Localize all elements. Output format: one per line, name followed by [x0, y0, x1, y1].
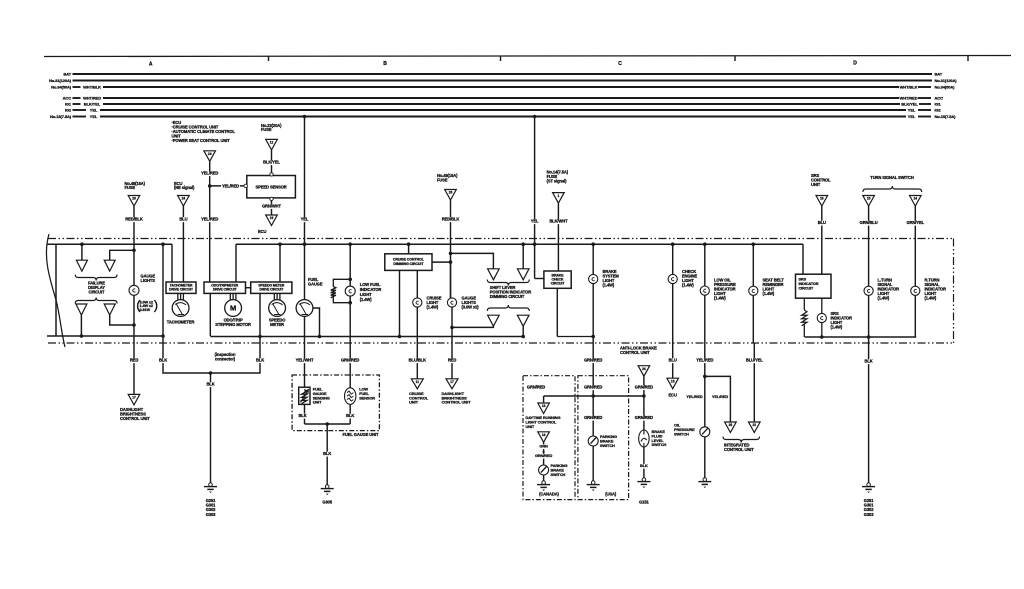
svg-text:FUSE: FUSE [125, 185, 136, 190]
node fuel gauge rail [318, 335, 322, 339]
wire low fuel sensor BLK [349, 404, 351, 424]
connector triangle 14 turn signal R [910, 196, 922, 207]
wire sending unit BLK [304, 404, 306, 424]
failure display triangle 4 [104, 304, 115, 315]
wire cruise dimming to RED/BLK illum wire [432, 261, 451, 263]
svg-text:GRN/RED: GRN/RED [584, 385, 602, 390]
tachometer pins [177, 293, 179, 299]
wire BLU SRS control unit to SRS indicator circuit [821, 206, 823, 274]
svg-text:SWITCH: SWITCH [600, 443, 615, 448]
svg-text:ACC: ACC [63, 96, 72, 101]
wire GRN/RED from ABS triangle [643, 376, 645, 430]
parking brake switch canada [539, 465, 549, 475]
svg-text:METER: METER [270, 322, 284, 327]
connector triangle 26 No.49 fuse middle [445, 190, 457, 201]
svg-text:GRN/RED: GRN/RED [527, 385, 545, 390]
label YEL/WHT [295, 358, 314, 363]
wire gauge lights bulb down to RED exit [133, 295, 135, 343]
label YEL/RED right [711, 395, 729, 400]
wire failure triangle 4 to RED/BLK wire [110, 315, 134, 325]
svg-text:D: D [853, 61, 857, 67]
svg-text:(1.4W): (1.4W) [763, 291, 775, 296]
label GRN [539, 444, 547, 449]
svg-text:24: 24 [642, 367, 646, 371]
brake check circuit box [544, 271, 571, 288]
label GRN/RED canada switch [535, 454, 553, 459]
wire YEL/RED branch to speed sensor [210, 185, 244, 187]
label RED/BLK [125, 217, 144, 222]
svg-text:WHT/BLK: WHT/BLK [83, 85, 101, 90]
wire bus to rail bypass left of tachometer [162, 244, 164, 336]
connector triangle 18 SRS control unit [816, 196, 828, 207]
label GRN/RED main [584, 358, 603, 363]
svg-text:26: 26 [729, 423, 733, 427]
svg-text:GRN/RED: GRN/RED [635, 385, 653, 390]
svg-text:YEL: YEL [90, 114, 98, 119]
gauge assembly torn left edge [46, 234, 65, 347]
svg-text:BLU/BLK: BLU/BLK [409, 358, 426, 363]
svg-text:BLK/YEL: BLK/YEL [84, 102, 101, 107]
speedo meter pins [273, 293, 275, 299]
svg-text:GRN/YEL: GRN/YEL [907, 220, 925, 225]
connector triangle 15 ECU [667, 378, 679, 389]
node low fuel loop top [348, 278, 352, 282]
svg-text:SPEED SENSOR: SPEED SENSOR [256, 185, 287, 190]
internal bus left segment [47, 243, 172, 245]
label BLK right ground [864, 359, 873, 364]
label BLK/YEL [262, 160, 281, 165]
label GRN/RED fuel [341, 358, 360, 363]
label RED right [448, 358, 457, 363]
svg-text:YEL/RED: YEL/RED [222, 183, 239, 188]
ground rail right segment [805, 336, 917, 338]
svg-text:·AUTOMATIC CLIMATE CONTROL: ·AUTOMATIC CLIMATE CONTROL [172, 129, 236, 134]
connector triangle 17 dashlight left [128, 394, 140, 405]
svg-text:No.15(7.5A): No.15(7.5A) [50, 114, 72, 119]
svg-text:INDICATOR: INDICATOR [799, 282, 819, 286]
ground canada [542, 481, 546, 485]
brake system light bulb [589, 274, 598, 283]
label BLU [179, 217, 188, 222]
svg-text:(1.4W): (1.4W) [427, 304, 439, 309]
wire R turn bulb to rail [914, 295, 916, 337]
wire seat belt light to BLU/YEL exit [752, 295, 754, 343]
connector triangle 26 ICU left [725, 422, 737, 433]
wire GRN/RED brake system to parking brake switches [592, 343, 594, 436]
node bypass wire at rail [161, 334, 165, 338]
label BLK left [159, 358, 168, 363]
svg-text:YEL/RED: YEL/RED [201, 171, 218, 176]
svg-text:DRIVE CIRCUIT: DRIVE CIRCUIT [259, 288, 284, 292]
svg-text:(1.4W): (1.4W) [878, 296, 890, 301]
node shift lever dimmer feed [449, 252, 453, 256]
node shift lever feed on bus [521, 242, 525, 246]
svg-text:CONTROL UNIT: CONTROL UNIT [442, 400, 472, 405]
node failure display feed [80, 242, 84, 246]
wire fuel gauge right side to rail [313, 308, 320, 337]
wire low fuel indicator main [349, 244, 351, 343]
svg-text:IG1: IG1 [935, 102, 942, 107]
svg-text:UNIT: UNIT [313, 400, 322, 405]
section ruler line [44, 56, 1011, 57]
ground rail brake check link [557, 336, 593, 338]
label GRN/RED canada [527, 385, 546, 390]
svg-text:CONTROL UNIT: CONTROL UNIT [120, 416, 150, 421]
usa box [578, 376, 629, 500]
bus No.31(120A) line [73, 80, 933, 82]
junction node speed sensor branch [208, 184, 212, 188]
label YEL/RED left [686, 395, 704, 400]
connector triangle 26 No.49 fuse left [128, 196, 140, 207]
wire RED/BLK fuse to gauge lights [133, 206, 135, 286]
svg-text:CIRCUIT: CIRCUIT [551, 282, 565, 286]
svg-text:(NE signal): (NE signal) [174, 185, 195, 190]
svg-text:YEL/RED: YEL/RED [712, 394, 728, 399]
wire gauge lights right to RED exit [451, 307, 453, 343]
shift lever triangle 4 [517, 315, 529, 326]
node fuel gauge feed on bus [303, 242, 307, 246]
internal bus left end drop wire [55, 244, 57, 336]
wire failure triangle 3 to rail [80, 315, 82, 336]
shift lever lower brace [487, 305, 529, 311]
label YEL/RED upper [200, 171, 219, 176]
svg-text:UNIT: UNIT [526, 424, 535, 429]
svg-text:ECU: ECU [258, 229, 266, 234]
tachometer gauge [172, 300, 189, 317]
svg-text:UNIT: UNIT [811, 182, 821, 187]
svg-text:G303: G303 [864, 512, 874, 517]
node shift lever rail [521, 335, 525, 339]
wire BLK left inspection connector [163, 336, 260, 373]
node YEL on bus [533, 242, 537, 246]
svg-text:DIMMING CIRCUIT: DIMMING CIRCUIT [393, 262, 424, 266]
svg-text:(1.4W): (1.4W) [925, 296, 937, 301]
label YEL/RED on branch [221, 184, 240, 189]
tachometer drive circuit box [166, 282, 196, 293]
low fuel resistor parallel loop [333, 279, 350, 286]
fuel gauge [296, 300, 313, 317]
wire check engine light to BLU exit [672, 284, 674, 343]
wire SRS bulb to rail [821, 323, 823, 337]
shift lever upper brace [487, 280, 529, 286]
svg-text:SWITCH: SWITCH [652, 442, 667, 447]
svg-text:No.15(7.5A): No.15(7.5A) [935, 114, 957, 119]
svg-text:CIRCUIT: CIRCUIT [89, 290, 106, 295]
svg-text:DRIVE CIRCUIT: DRIVE CIRCUIT [213, 288, 238, 292]
wire bus corner to odo box [235, 244, 237, 282]
node YEL tap on No.15 bus right [533, 115, 537, 119]
svg-text:(1.4W): (1.4W) [831, 324, 843, 329]
svg-text:FUSE: FUSE [437, 177, 448, 182]
label BLK right [256, 358, 265, 363]
svg-text:0.91W: 0.91W [140, 308, 151, 312]
wire SRS resistor to rail [803, 324, 805, 337]
wire brake system light to GRN/RED exit [592, 284, 594, 343]
svg-text:15: 15 [671, 379, 675, 383]
svg-text:M: M [230, 304, 236, 313]
svg-text:BLK/YEL: BLK/YEL [901, 102, 918, 107]
label YEL/RED lower [200, 217, 219, 222]
svg-text:14: 14 [542, 433, 546, 437]
fuel gauge unit box [292, 375, 379, 431]
svg-text:No.34(50A): No.34(50A) [935, 85, 956, 90]
gauge assembly box top border [48, 238, 954, 240]
bus No.34(50A) WHT/BLK line [73, 86, 81, 88]
svg-text:BAT: BAT [63, 72, 71, 77]
node L turn rail [867, 335, 871, 339]
svg-text:ECU: ECU [669, 392, 677, 397]
brake fluid level switch [639, 430, 649, 447]
R turn signal indicator bulb [911, 286, 920, 295]
svg-text:17: 17 [132, 396, 136, 400]
ground G305 [325, 485, 329, 489]
svg-text:G305: G305 [322, 500, 332, 505]
svg-text:BLU: BLU [179, 217, 187, 222]
svg-text:ACC: ACC [935, 96, 944, 101]
svg-text:FUSE: FUSE [261, 127, 272, 132]
failure display triangle 2 [104, 260, 115, 271]
ground right [867, 483, 871, 487]
wire GRN/RED cross link [544, 395, 644, 397]
wire shift lever triangle 3 to dimmer wire [452, 326, 493, 327]
wire cruise dimming to cruise light [416, 270, 418, 298]
svg-text:RED: RED [448, 358, 456, 363]
svg-text:BLK: BLK [159, 358, 167, 363]
ruler tick 3 [734, 56, 736, 61]
label BLK fuel ground [323, 452, 332, 457]
svg-text:FUEL GAUGE UNIT: FUEL GAUGE UNIT [343, 432, 380, 437]
label GRN/RED ABS [635, 385, 654, 390]
cruise control dimming circuit box [385, 254, 432, 271]
svg-text:YEL/RED: YEL/RED [201, 217, 218, 222]
wire YEL/WHT to fuel gauge sending unit [304, 343, 306, 387]
wire GRN/BLU to L turn indicator [868, 206, 870, 286]
svg-text:18: 18 [820, 197, 824, 201]
ruler tick 2 [500, 56, 502, 61]
bus ACC WHT/RED line [73, 97, 81, 99]
connector triangle 24 YEL/RED source [204, 151, 216, 162]
wire bus to tachometer drive circuit [171, 244, 173, 282]
node YEL tap on No.15 bus [303, 115, 307, 119]
svg-text:15: 15 [867, 197, 871, 201]
svg-text:11: 11 [416, 380, 420, 384]
shift lever triangle 1 [488, 269, 500, 280]
svg-text:No.31(120A): No.31(120A) [935, 78, 958, 83]
svg-text:YEL: YEL [908, 114, 916, 119]
connector triangle 24 ECU NE signal [178, 196, 190, 207]
label GRN/RED brake fluid [635, 416, 654, 421]
wire oil pressure switch to ground [704, 437, 706, 478]
wire bus to shift lever triangle 2 [522, 244, 524, 269]
label BLU ecu [668, 358, 677, 363]
svg-text:GRN/BLU: GRN/BLU [860, 220, 878, 225]
ground oil pressure [703, 478, 707, 482]
svg-text:IG1: IG1 [65, 102, 72, 107]
node brake system light rail [591, 335, 595, 339]
node YEL/RED branch [703, 375, 707, 379]
svg-text:26: 26 [449, 191, 453, 195]
connector triangle 15 turn signal L [863, 196, 875, 207]
wire SRS box to resistor [803, 298, 805, 310]
wire bus end corner to SRS indicator circuit [802, 244, 804, 274]
wire YEL/RED branch to ICU [705, 376, 731, 422]
wire usa switch to ground [592, 446, 594, 481]
svg-text:24: 24 [208, 152, 212, 156]
node failure triangle 4 join [132, 323, 136, 327]
svg-text:BLK/YEL: BLK/YEL [263, 160, 280, 165]
label GRN/YEL [906, 221, 925, 226]
svg-text:1: 1 [558, 194, 560, 198]
svg-text:CRUISE CONTROL: CRUISE CONTROL [393, 257, 425, 261]
wire fuel gauge unit join [305, 423, 351, 425]
bus IG2 YEL line [73, 109, 87, 111]
svg-text:17: 17 [450, 380, 454, 384]
wire bus to low oil pressure light [704, 244, 706, 286]
wire RED/BLK fuse to gauge lights bulb [450, 200, 452, 298]
label YEL [300, 217, 309, 222]
node speedo feed on bus [278, 242, 282, 246]
label BLK sensor [346, 414, 355, 419]
svg-text:No.34(50A): No.34(50A) [51, 85, 72, 90]
svg-text:DRIVE CIRCUIT: DRIVE CIRCUIT [169, 288, 194, 292]
speed sensor pin left [244, 184, 247, 187]
node speedo ground at rail [258, 335, 262, 339]
node failure triangle 3 rail [80, 334, 84, 338]
wire GRN/WHT speed sensor to ECU [271, 201, 273, 215]
svg-text:): ) [154, 298, 158, 313]
svg-text:GRN/RED: GRN/RED [535, 453, 553, 458]
wire YEL bus to fuel gauge [304, 117, 306, 301]
node illum wire join [449, 260, 453, 264]
label GRN/RED usa switch [584, 416, 603, 421]
svg-text:BLK: BLK [346, 413, 354, 418]
connector triangle 16 to ECU [266, 215, 278, 226]
seat belt reminder light bulb [749, 286, 758, 295]
svg-text:G303: G303 [206, 512, 216, 517]
svg-text:SRS: SRS [799, 278, 807, 282]
SRS indicator resistor [802, 310, 807, 326]
wire YEL/RED to oil pressure switch [704, 343, 706, 427]
wire RED to dashlight control right [451, 343, 453, 379]
ground G251 left [209, 483, 213, 487]
connector triangle 13 daytime running light [538, 403, 550, 414]
svg-text:GRN/RED: GRN/RED [584, 358, 602, 363]
wire L turn bulb to rail and BLK exit [868, 295, 870, 343]
turn signal switch brace [863, 186, 922, 192]
odo/trip stepping motor [225, 300, 242, 317]
wire canada drop [543, 396, 545, 403]
wire low oil light to YEL/RED exit [704, 295, 706, 343]
wire BLK/WHT fuse to brake check circuit [557, 203, 559, 271]
svg-text:BAT: BAT [935, 72, 943, 77]
svg-text:GRN/WHT: GRN/WHT [262, 203, 281, 208]
wire failure display triangle 2 feed [110, 250, 134, 260]
svg-text:BLU: BLU [818, 220, 826, 225]
label BLU/YEL [745, 358, 764, 363]
svg-text:(USA): (USA) [605, 492, 617, 497]
low fuel sensor symbol [345, 388, 356, 405]
svg-text:UNIT: UNIT [409, 400, 419, 405]
svg-text:No.31(120A): No.31(120A) [49, 78, 72, 83]
ground usa [591, 481, 595, 485]
node check engine light feed [671, 242, 675, 246]
node low oil light feed [703, 242, 707, 246]
node cruise dimming feed on bus [407, 242, 411, 246]
svg-text:(ST signal): (ST signal) [547, 179, 568, 184]
node SRS bulb rail [820, 335, 824, 339]
wire shift lever triangle 4 to rail [522, 326, 524, 336]
low oil pressure indicator light bulb [700, 286, 709, 295]
svg-text:YEL: YEL [531, 219, 539, 224]
svg-text:RED/BLK: RED/BLK [442, 217, 460, 222]
oil pressure switch [700, 427, 710, 437]
svg-text:BLK: BLK [298, 413, 306, 418]
speed sensor pin top [270, 173, 273, 176]
svg-text:24: 24 [182, 197, 186, 201]
label YEL right [530, 219, 539, 224]
svg-text:CIRCUIT: CIRCUIT [799, 286, 814, 290]
svg-text:A: A [149, 62, 153, 68]
ruler tick 4 [967, 56, 969, 61]
svg-text:YEL/RED: YEL/RED [696, 358, 713, 363]
svg-text:(1.4W): (1.4W) [714, 296, 726, 301]
wire GRN/YEL to R turn indicator [914, 206, 916, 286]
svg-text:LIGHTS: LIGHTS [141, 278, 156, 283]
svg-text:WHT/RED: WHT/RED [900, 96, 918, 101]
wire canada switch to ground [543, 475, 545, 481]
svg-text:22: 22 [753, 423, 757, 427]
L turn signal indicator bulb [864, 286, 873, 295]
svg-text:IG2: IG2 [65, 108, 72, 113]
wire fuel unit to ground G305 [326, 424, 328, 485]
svg-text:BLK: BLK [206, 382, 214, 387]
svg-text:SWITCH: SWITCH [551, 472, 566, 477]
svg-text:(1.4W): (1.4W) [603, 283, 615, 288]
label GRN/BLU [859, 221, 878, 226]
ground G151 [642, 478, 646, 482]
connector triangle 14 daytime running light out [538, 432, 550, 443]
node brake system light feed [591, 242, 595, 246]
label GRN/WHT [262, 204, 281, 209]
node failure triangle 2 to RED/BLK wire [132, 249, 136, 253]
failure display lower brace [75, 298, 117, 304]
svg-text:C: C [618, 61, 622, 67]
svg-text:TACHOMETER: TACHOMETER [167, 320, 195, 325]
label RED [130, 358, 139, 363]
wire brake fluid to ground [643, 447, 645, 478]
connector triangle 17 dashlight right [446, 379, 458, 389]
wire bus to check engine light [672, 244, 674, 274]
gauge lights bulb left [129, 285, 139, 295]
label BLK sending [298, 414, 307, 419]
wire YEL to brake check circuit left [535, 278, 544, 280]
svg-text:RED: RED [130, 358, 138, 363]
check engine light bulb [668, 274, 677, 283]
wire to failure display triangle 1 [81, 244, 83, 260]
connector triangle 11 cruise control unit [411, 379, 423, 389]
svg-text:GRN: GRN [539, 444, 548, 449]
node low fuel feed on bus [348, 242, 352, 246]
svg-text:BLK/WHT: BLK/WHT [549, 219, 568, 224]
wire GRN to parking brake switch canada [543, 442, 545, 465]
speedo meter gauge [269, 300, 286, 317]
node fuel unit ground join [325, 422, 329, 426]
wire fuel gauge bottom to sending unit YEL/WHT [304, 316, 306, 343]
ICU brace [723, 437, 760, 443]
svg-text:STEPPING MOTOR: STEPPING MOTOR [215, 322, 251, 327]
svg-text:WHT/BLK: WHT/BLK [900, 85, 918, 90]
wire bus to speedo box [279, 244, 281, 282]
